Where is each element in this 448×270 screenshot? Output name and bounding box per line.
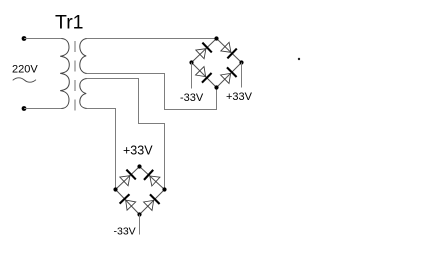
- node bridge2 top: [137, 164, 141, 168]
- node bridge1 bottom: [214, 85, 218, 89]
- diode bridge2 upper-right (anode right node, cathode top node): [144, 170, 160, 187]
- wire bridge1 -33V stub: [191, 63, 193, 89]
- terminal node top-left: [22, 36, 27, 41]
- transformer core: [74, 41, 76, 112]
- svg-text:-33V: -33V: [180, 92, 204, 104]
- svg-text:220V: 220V: [12, 64, 38, 76]
- wire bridge2 edge left-top: [116, 167, 140, 190]
- diode bridge2 lower-left (anode bottom node, cathode left node): [120, 194, 137, 211]
- svg-text:-33V: -33V: [114, 226, 136, 238]
- transformer Tr1 primary winding: [60, 39, 69, 109]
- wire bridge2 edge left-bottom: [116, 190, 140, 215]
- node bridge2 bottom: [137, 212, 141, 216]
- node bridge2 right: [162, 187, 166, 191]
- wire top-left terminal to primary: [24, 38, 62, 40]
- wire secondary upper top lead to bridge1 top node: [87, 38, 217, 40]
- svg-text:+33V: +33V: [226, 91, 253, 103]
- wire secondary upper bottom lead to bridge1 bottom node: [87, 74, 217, 110]
- stray mark: [298, 58, 300, 60]
- transformer Tr1 secondary winding lower: [80, 79, 87, 109]
- wire bridge2 -33V stub: [139, 215, 141, 235]
- transformer Tr1 secondary winding upper: [80, 39, 87, 74]
- wire bridge1 +33V stub: [241, 63, 243, 88]
- diode bridge1 lower-left (anode left node, cathode bottom node): [195, 66, 212, 83]
- wire secondary lower top lead to bridge2 right node: [87, 79, 165, 190]
- diode bridge2 upper-left (anode left node, cathode top node): [119, 170, 136, 187]
- wire bridge1 edge left-top: [192, 39, 217, 63]
- wire bridge1 edge top-right: [217, 39, 242, 63]
- diode bridge2 lower-right (anode bottom node, cathode right node): [143, 194, 160, 211]
- wire bottom-left terminal to primary: [24, 108, 62, 110]
- wire bridge2 edge top-right: [140, 167, 165, 190]
- terminal node bottom-left: [22, 106, 27, 111]
- diode bridge1 upper-left (anode left node, cathode top node): [195, 43, 212, 60]
- svg-text:+33V: +33V: [123, 144, 153, 158]
- AC sine symbol: [13, 78, 36, 82]
- diode bridge1 lower-right (anode bottom node, cathode right node): [220, 67, 237, 84]
- node bridge1 top: [214, 36, 218, 40]
- wire secondary lower bottom lead to bridge2 left node: [87, 109, 116, 190]
- wire bridge1 edge bottom-right: [217, 63, 242, 88]
- wire bridge2 edge bottom-right: [140, 190, 165, 215]
- node bridge1 right: [239, 60, 243, 64]
- diode bridge1 upper-right (anode top node, cathode right node): [220, 42, 237, 59]
- svg-text:Tr1: Tr1: [55, 12, 84, 34]
- node bridge2 left: [113, 187, 117, 191]
- node bridge1 left: [189, 60, 193, 64]
- wire bridge1 edge left-bottom: [192, 63, 217, 88]
